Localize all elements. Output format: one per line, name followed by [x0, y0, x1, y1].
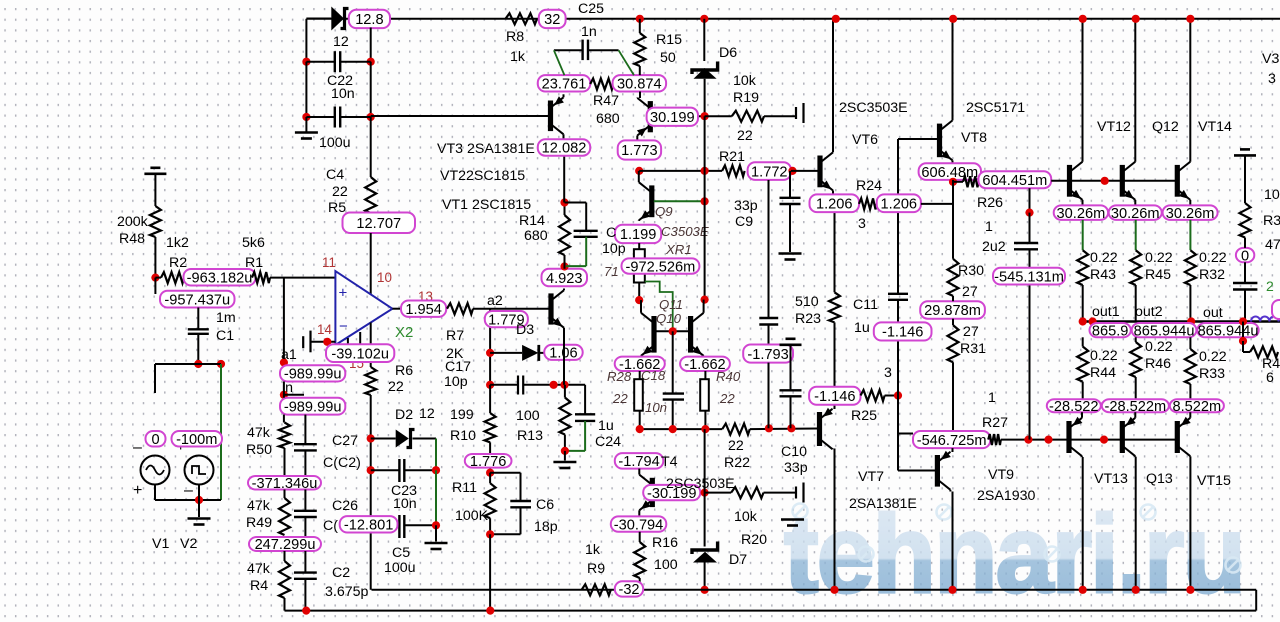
- wire stub left of V1: [154, 364, 156, 393]
- wire lower collectors to rail: [1082, 457, 1084, 590]
- junction out right: [1239, 317, 1247, 325]
- junction D3 left: [486, 349, 494, 357]
- inductor output coil: [1251, 317, 1280, 322]
- svg-text:C3503E: C3503E: [661, 224, 709, 239]
- svg-text:33p: 33p: [734, 198, 758, 214]
- capacitor C10 33p: [780, 389, 802, 391]
- value label 12.082: [538, 139, 590, 155]
- junction C16 column: [765, 424, 773, 432]
- svg-text:3.675p: 3.675p: [325, 584, 369, 600]
- svg-text:Q9: Q9: [655, 204, 673, 219]
- capacitor C24 1u: [584, 413, 586, 415]
- svg-text:0.22: 0.22: [1090, 250, 1118, 266]
- value label 1.954: [401, 301, 446, 317]
- svg-text:100: 100: [654, 557, 678, 573]
- zener diode D6: [703, 19, 705, 61]
- svg-text:V1: V1: [152, 536, 169, 552]
- svg-text:2: 2: [1266, 278, 1274, 294]
- svg-text:865.944u: 865.944u: [1198, 323, 1259, 339]
- svg-text:100u: 100u: [384, 560, 416, 576]
- resistor R23 510: [829, 292, 840, 322]
- junction C5 right: [432, 521, 440, 529]
- svg-text:27: 27: [962, 284, 978, 300]
- svg-text:47k: 47k: [247, 561, 271, 577]
- ground above R35: [1240, 148, 1250, 151]
- wire op-amp VEE pin 15 to R6: [370, 323, 372, 368]
- svg-text:12: 12: [419, 406, 435, 422]
- svg-text:29.878m: 29.878m: [924, 303, 981, 319]
- svg-text:R45: R45: [1145, 267, 1171, 283]
- svg-text:VT7: VT7: [858, 469, 884, 485]
- svg-text:2SC3503E: 2SC3503E: [666, 476, 735, 492]
- svg-text:R3: R3: [1263, 213, 1280, 229]
- resistor R45 0.22: [1130, 250, 1141, 285]
- svg-text:R10: R10: [450, 428, 476, 444]
- value label 1.06: [544, 345, 583, 360]
- junction 100u left: [302, 113, 310, 121]
- svg-text:10n: 10n: [645, 400, 667, 415]
- wire D6 column to bottom rail: [704, 429, 706, 493]
- value label -1.794: [615, 453, 664, 469]
- svg-text:3: 3: [1268, 71, 1276, 87]
- transistor VT13: [1069, 412, 1082, 457]
- value label -30.199: [643, 485, 700, 500]
- svg-text:-1.794: -1.794: [618, 454, 659, 470]
- svg-text:R13: R13: [517, 428, 543, 444]
- svg-text:12.707: 12.707: [356, 216, 401, 232]
- value label 0: [1236, 248, 1254, 262]
- svg-text:Q12: Q12: [1152, 119, 1179, 135]
- wire R50 to node: [284, 448, 286, 476]
- svg-text:D7: D7: [729, 552, 747, 568]
- svg-text:-12.801: -12.801: [344, 518, 394, 534]
- value label 23.761: [538, 75, 590, 91]
- wire VT9 emitter up: [952, 448, 954, 452]
- svg-text:-1.793: -1.793: [747, 347, 788, 363]
- value label 30.26m: [1163, 205, 1218, 220]
- svg-text:C5: C5: [392, 545, 410, 561]
- value label 1.206: [810, 194, 860, 212]
- svg-text:C6: C6: [536, 497, 554, 513]
- svg-text:1: 1: [988, 390, 996, 406]
- svg-text:C10: C10: [781, 444, 807, 460]
- resistor R6 22: [365, 367, 376, 395]
- resistor R8 1k: [506, 13, 538, 24]
- wire VT3 collector: [563, 156, 565, 203]
- resistor R21 22: [722, 165, 745, 176]
- svg-text:R14: R14: [519, 213, 545, 229]
- junction R11 top: [486, 469, 494, 477]
- wire R11 leads: [489, 473, 491, 484]
- svg-text:22: 22: [388, 379, 404, 395]
- svg-text:R16: R16: [652, 535, 678, 551]
- resistor R5 22: [365, 177, 376, 213]
- junction Q12 collector rail: [1132, 15, 1140, 23]
- wire R13 bottom: [564, 435, 566, 451]
- value label -30.794: [611, 516, 667, 531]
- wire corner down to C24: [584, 385, 586, 415]
- svg-text:247.299u: 247.299u: [255, 537, 316, 553]
- resistor R1 5k6: [252, 272, 270, 283]
- svg-text:2SC3503E: 2SC3503E: [839, 100, 908, 116]
- junction source top right: [217, 360, 225, 368]
- junction node in: [280, 391, 288, 399]
- svg-text:R44: R44: [1090, 365, 1116, 381]
- wire R48 to node: [154, 237, 156, 278]
- value label 1.206: [877, 194, 921, 212]
- value label -545.131m: [993, 268, 1065, 285]
- wire to ground below sources: [198, 500, 200, 517]
- svg-text:47k: 47k: [247, 498, 271, 514]
- wire column from 1.772 node down: [768, 180, 770, 318]
- svg-text:R22: R22: [724, 455, 750, 471]
- value label 604.451m: [979, 171, 1052, 188]
- svg-text:0.22: 0.22: [1145, 339, 1173, 355]
- ground above C10: [786, 337, 796, 340]
- svg-text:33p: 33p: [784, 460, 808, 476]
- capacitor C2 parallel R4: [304, 551, 306, 573]
- transistor VT1 2SC1815: [551, 289, 564, 385]
- svg-text:1m: 1m: [216, 310, 236, 326]
- junction C17 left: [486, 381, 494, 389]
- junction R15 top: [636, 15, 644, 23]
- svg-text:C26: C26: [332, 498, 358, 514]
- svg-text:2u2: 2u2: [982, 239, 1006, 255]
- svg-text:C(: C(: [323, 518, 338, 534]
- junction Q11 top: [635, 296, 643, 304]
- wire top-left corner down: [305, 19, 307, 62]
- wire D6 column down: [704, 116, 706, 299]
- wire R10 top: [489, 385, 491, 413]
- svg-text:10p: 10p: [444, 374, 468, 390]
- svg-text:-1.146: -1.146: [882, 325, 923, 341]
- svg-text:out2: out2: [1135, 304, 1163, 320]
- transistor T4 2SC3503E: [639, 469, 652, 517]
- value label -12.801: [340, 516, 398, 532]
- svg-text:12.082: 12.082: [542, 141, 587, 157]
- resistor R9 1k: [582, 584, 611, 595]
- resistor R15 50: [634, 33, 645, 66]
- svg-text:12.8: 12.8: [355, 12, 383, 28]
- svg-text:4.923: 4.923: [546, 271, 583, 287]
- wire VT7 collector to bottom rail: [834, 449, 836, 590]
- wire C25 diagonal left: [554, 50, 565, 75]
- value label 865.944u: [1132, 323, 1197, 337]
- svg-text:1.206: 1.206: [881, 196, 918, 212]
- svg-text:-1.146: -1.146: [814, 389, 855, 405]
- wire R23 to VT7: [834, 322, 836, 409]
- resistor R33 0.22: [1189, 337, 1191, 349]
- svg-text:47k: 47k: [247, 425, 271, 441]
- ground below C5 network: [425, 542, 448, 545]
- svg-text:+: +: [339, 285, 348, 302]
- junction VT6 collector rail: [832, 15, 840, 23]
- svg-text:10p: 10p: [602, 241, 626, 257]
- svg-text:1u: 1u: [854, 320, 870, 336]
- value label 1.772: [748, 162, 791, 180]
- capacitor C25 1n: [554, 49, 583, 51]
- resistor R4 47k: [279, 561, 290, 598]
- wire in node down: [283, 382, 285, 398]
- junction C22 right top: [367, 58, 375, 66]
- source V2 pulse: [185, 456, 214, 485]
- svg-text:6: 6: [1266, 370, 1274, 386]
- wire R19 to tie cap: [764, 115, 796, 117]
- ground below R13: [553, 461, 576, 464]
- capacitor C18 10n: [672, 331, 674, 393]
- svg-text:R30: R30: [958, 263, 984, 279]
- wire lower bias rail: [640, 428, 723, 430]
- value label 1.779: [485, 311, 528, 327]
- junction node a1: [280, 358, 288, 366]
- svg-text:VT9: VT9: [988, 467, 1014, 483]
- svg-text:D3: D3: [516, 322, 534, 338]
- svg-text:47: 47: [1265, 237, 1280, 253]
- svg-text:R7: R7: [446, 328, 464, 344]
- resistor R7 2K: [447, 303, 473, 314]
- svg-text:680: 680: [524, 228, 548, 244]
- value label -39.102u: [326, 344, 394, 362]
- svg-text:8.522m: 8.522m: [1173, 399, 1222, 415]
- resistor R13 100: [559, 398, 570, 435]
- resistor R40 box element: [704, 371, 706, 379]
- junction R25 C11: [894, 391, 902, 399]
- junction 100u right: [367, 113, 375, 121]
- svg-text:-30.794: -30.794: [614, 517, 664, 533]
- zener diode D7: [704, 493, 706, 547]
- svg-text:11: 11: [322, 255, 336, 270]
- svg-text:-972.526m: -972.526m: [626, 259, 696, 275]
- wire C23 to C5 green: [435, 470, 437, 525]
- wire R14 bottom to box: [564, 260, 566, 269]
- resistor R35: [1240, 203, 1251, 238]
- tie capacitor after R20: [795, 487, 797, 499]
- resistor R19 10k: [705, 115, 732, 117]
- ground above R48: [150, 167, 160, 170]
- value label -1.793: [743, 345, 793, 363]
- resistor R46 0.22: [1135, 337, 1137, 342]
- junction R21 center: [701, 167, 709, 175]
- svg-text:–: –: [133, 439, 142, 456]
- wire VT6 emitter node to R23: [834, 212, 836, 292]
- junction R11 rail: [486, 607, 494, 615]
- value label 865.9: [1090, 323, 1131, 337]
- svg-text:VT8: VT8: [961, 130, 987, 146]
- junction C9 top: [788, 167, 796, 175]
- resistor R22 22: [722, 424, 750, 435]
- capacitor C1 1m: [188, 328, 209, 330]
- value label -1.146: [809, 387, 860, 405]
- svg-text:R26: R26: [977, 195, 1003, 211]
- svg-text:C: C: [606, 225, 616, 241]
- svg-text:C1: C1: [216, 328, 234, 344]
- junction out R32: [1187, 317, 1195, 325]
- value label 32: [539, 10, 566, 28]
- svg-text:C9: C9: [735, 214, 753, 230]
- wire R22 to VT7 base: [750, 428, 818, 431]
- junction rail Q11: [636, 425, 644, 433]
- svg-text:100K: 100K: [455, 508, 489, 524]
- resistor XR1 box element: [638, 243, 640, 249]
- ground below 100u: [295, 131, 318, 134]
- resistor R50 47k: [279, 423, 290, 449]
- capacitor C22 10n: [306, 61, 334, 63]
- svg-text:10n: 10n: [331, 86, 355, 102]
- wire inverting input: [311, 341, 336, 343]
- capacitor parallel R14: [565, 202, 587, 204]
- wire stub to -546 box: [898, 433, 913, 435]
- capacitor right edge: [1244, 262, 1246, 283]
- tie capacitor after R19: [795, 107, 797, 119]
- wire output base rail top: [1051, 180, 1175, 182]
- capacitor above -1.793: [759, 317, 778, 319]
- value label -989.99u: [280, 365, 345, 381]
- svg-text:1u: 1u: [598, 418, 614, 434]
- wire R13 top: [564, 385, 566, 398]
- junction VT13 rail: [1079, 586, 1087, 594]
- svg-text:865.944u: 865.944u: [1134, 323, 1195, 339]
- transistor VT5 cascode: [637, 98, 650, 141]
- junction out R43: [1079, 317, 1087, 325]
- resistor R11 100K: [485, 483, 496, 518]
- svg-text:0.22: 0.22: [1090, 348, 1118, 364]
- svg-text:R6: R6: [395, 363, 413, 379]
- wire R14 leads: [564, 203, 566, 216]
- wire R21 row: [639, 170, 722, 172]
- value label -957.437u: [160, 291, 235, 308]
- svg-text:C17: C17: [445, 359, 471, 375]
- wire R16 leads: [639, 532, 641, 542]
- svg-text:out: out: [1203, 305, 1223, 321]
- svg-text:50: 50: [660, 50, 676, 66]
- junction R14 bottom: [560, 262, 568, 270]
- wire VT3 base: [371, 115, 549, 117]
- wire joining bottom rails: [1255, 590, 1257, 611]
- zener diode D2 12V: [371, 438, 396, 440]
- capacitor C6 18p: [490, 472, 520, 474]
- svg-text:-545.131m: -545.131m: [994, 269, 1064, 285]
- op-amp output wire: [392, 308, 401, 310]
- svg-text:a2: a2: [487, 293, 503, 309]
- wire R4 node: [284, 551, 286, 561]
- wire VT9 collector to rail: [952, 492, 954, 590]
- svg-text:100: 100: [516, 408, 540, 424]
- junction Q9 base: [701, 197, 709, 205]
- svg-text:T4: T4: [661, 454, 678, 470]
- source V1 sine: [141, 456, 170, 485]
- svg-text:R50: R50: [246, 442, 272, 458]
- svg-text:18p: 18p: [534, 519, 558, 535]
- value label -1.662: [615, 357, 665, 371]
- junction R2 input node: [151, 274, 159, 282]
- svg-text:1k2: 1k2: [166, 235, 189, 251]
- svg-text:0.22: 0.22: [1199, 250, 1227, 266]
- wire between caps: [305, 62, 307, 117]
- resistor R27 1: [988, 434, 1001, 445]
- wire -1.793 to rail: [768, 363, 770, 429]
- resistor R47 680: [590, 79, 613, 90]
- capacitor C9 33p: [789, 171, 791, 198]
- junction rail C18: [669, 425, 677, 433]
- wire R31 leads: [952, 319, 954, 325]
- value label -371.346u: [248, 476, 321, 490]
- wire source top row: [155, 363, 221, 365]
- svg-text:-546.725m: -546.725m: [917, 433, 987, 449]
- junction VT8 collector rail: [949, 15, 957, 23]
- svg-text:1.772: 1.772: [751, 164, 788, 180]
- svg-text:D2: D2: [395, 407, 413, 423]
- svg-text:10: 10: [377, 270, 392, 285]
- svg-text:R20: R20: [741, 532, 767, 548]
- wire 2u2 column top: [1029, 188, 1031, 212]
- wire V2 bottom: [198, 485, 200, 501]
- svg-text:VT22SC1815: VT22SC1815: [440, 168, 525, 184]
- wire R10 bottom: [489, 442, 491, 472]
- value label 1.776: [465, 454, 512, 468]
- svg-text:R19: R19: [733, 90, 759, 106]
- wire Q9 emitter to Q11 green: [645, 282, 673, 329]
- value label -963.182u: [184, 269, 256, 286]
- svg-text:10k: 10k: [733, 73, 757, 89]
- resistor R25 3: [861, 390, 885, 401]
- wire VT8 base: [898, 138, 938, 140]
- transistor Q11: [641, 300, 654, 356]
- svg-text:1.776: 1.776: [470, 454, 507, 470]
- svg-text:R15: R15: [656, 32, 682, 48]
- wire T4 base green: [654, 492, 704, 494]
- capacitor C17 10p: [490, 384, 518, 386]
- wire to VT6 base: [791, 170, 818, 172]
- svg-text:30.26m: 30.26m: [1111, 206, 1160, 222]
- resistor R49 47k: [279, 498, 290, 535]
- svg-text:0: 0: [151, 432, 159, 448]
- svg-text:Q13: Q13: [1146, 471, 1173, 487]
- svg-text:71: 71: [604, 264, 619, 279]
- junction VT7 rail: [830, 586, 838, 594]
- wire D3 to VT1 emitter column: [540, 352, 565, 354]
- wire R4 to bottom rail: [284, 598, 286, 611]
- transistor VT12: [1070, 19, 1083, 206]
- svg-text:VT13: VT13: [1094, 471, 1128, 487]
- wire box to C1: [197, 308, 199, 330]
- svg-text:22: 22: [719, 391, 735, 406]
- value label 30.26m: [1109, 205, 1162, 220]
- junction VT14 collector rail: [1186, 15, 1194, 23]
- svg-text:R31: R31: [960, 341, 986, 357]
- wire top supply rail: [306, 18, 1280, 20]
- svg-text:-32: -32: [618, 582, 639, 598]
- svg-text:12: 12: [333, 34, 349, 50]
- wire C11 column lower: [897, 300, 899, 471]
- svg-text:510: 510: [795, 294, 819, 310]
- transistor VT15: [1177, 412, 1190, 457]
- svg-text:X2: X2: [395, 324, 413, 341]
- value label 12.8: [349, 10, 390, 28]
- svg-text:2SA1930: 2SA1930: [977, 488, 1035, 504]
- svg-text:604.451m: 604.451m: [982, 173, 1047, 189]
- wire bottom rail B: [285, 610, 1257, 612]
- wire branch down to a1: [283, 278, 285, 363]
- svg-text:–: –: [184, 482, 193, 499]
- wire ground to C10: [790, 345, 792, 391]
- value label 606.48m: [919, 163, 981, 180]
- svg-text:R25: R25: [851, 408, 877, 424]
- wire VT12 emitter green: [1082, 220, 1084, 250]
- junction R13 bottom: [561, 447, 569, 455]
- wire R15 leads: [639, 19, 641, 33]
- capacitor at inverting input: [302, 336, 304, 348]
- capacitor C27 parallel R50: [304, 415, 306, 445]
